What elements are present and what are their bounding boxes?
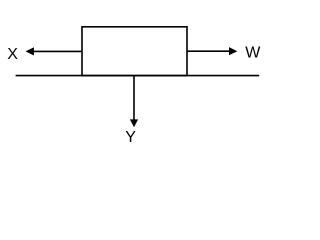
- svg-text:X: X: [7, 46, 18, 63]
- wire: arrow W shaft: [187, 50, 231, 52]
- svg-text:W: W: [245, 45, 261, 62]
- baseline (long horizontal line): [16, 75, 260, 77]
- wire: arrow Y shaft: [133, 76, 135, 121]
- arrowhead W (points right): [229, 47, 237, 55]
- block (process rectangle): [82, 27, 187, 76]
- svg-text:Y: Y: [125, 129, 136, 146]
- arrowhead Y (points down): [130, 119, 138, 127]
- arrowhead X (points left): [26, 47, 34, 55]
- wire: arrow X shaft: [33, 50, 83, 52]
